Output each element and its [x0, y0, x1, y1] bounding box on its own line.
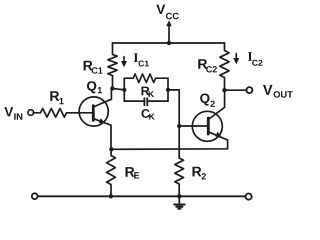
node RK box right — [166, 88, 170, 92]
resistor RC1 — [108, 43, 117, 88]
node RE bottom — [109, 194, 113, 198]
label CK — [142, 109, 155, 119]
transistor Q1 collector — [93, 88, 111, 107]
terminal bottom right — [246, 194, 252, 200]
label Vcc — [156, 5, 178, 20]
ground — [174, 196, 184, 208]
transistor Q2 emitter — [111, 132, 227, 150]
node Q2 base — [177, 124, 181, 128]
label RK — [142, 87, 155, 97]
transistor Q2 collector — [208, 90, 224, 119]
label IC2 — [248, 52, 263, 66]
label RE — [126, 167, 140, 178]
transistor Q2 circle — [192, 111, 222, 141]
label R2 — [193, 167, 206, 180]
node Vcc junction — [167, 41, 171, 45]
terminal bottom left — [32, 193, 38, 199]
box right side — [167, 78, 169, 101]
resistor R1 — [34, 109, 80, 118]
wire base R1 to Q1 — [79, 112, 93, 114]
wire bottom rail — [38, 195, 246, 197]
resistor R2 — [175, 158, 184, 196]
terminal Vin — [28, 110, 34, 116]
wire Vcc top rail — [113, 42, 225, 44]
current arrow IC1 — [121, 57, 127, 68]
node R2 bottom — [177, 194, 181, 198]
current arrow IC2 — [233, 54, 239, 65]
label RC2 — [198, 59, 217, 72]
label Vin — [4, 107, 22, 120]
terminal Vout — [246, 87, 252, 93]
label RC1 — [84, 61, 103, 74]
resistor RE — [107, 149, 116, 196]
wire Q2 base — [179, 125, 208, 127]
power Vcc arrow — [166, 20, 172, 43]
capacitor CK — [124, 98, 168, 105]
label IC1 — [134, 54, 149, 67]
label Q1 — [87, 81, 102, 93]
label R1 — [50, 91, 63, 104]
wire to Vout — [225, 89, 247, 91]
node emitter junction — [109, 147, 113, 151]
node Q1 collector — [110, 86, 114, 90]
transistor Q2 bar — [207, 118, 210, 134]
resistor RC2 — [220, 43, 229, 90]
wire RK box to R2 line — [168, 90, 179, 158]
wire collector to RK box — [112, 89, 124, 90]
transistor Q1 emitter — [93, 118, 111, 149]
transistor Q1 circle — [79, 97, 108, 126]
resistor RK — [124, 74, 168, 83]
node RK box left — [122, 88, 126, 92]
transistor Q1 bar — [92, 106, 95, 121]
label Q2 — [200, 94, 215, 107]
label Vout — [263, 85, 293, 98]
box left side — [123, 78, 125, 101]
node Vout junction — [222, 88, 226, 92]
